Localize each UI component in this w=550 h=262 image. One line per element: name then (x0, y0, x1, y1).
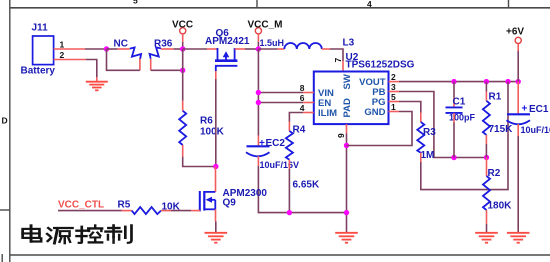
resistor R5 10K (118, 200, 181, 215)
svg-text:10uF/16V: 10uF/16V (521, 125, 550, 135)
wire R36 bottom loop (151, 69, 183, 71)
svg-text:1: 1 (391, 102, 396, 112)
node PAD rail junction (344, 210, 349, 215)
frame zone tick top right (508, 0, 510, 8)
svg-text:C1: C1 (453, 97, 466, 108)
svg-text:VCC: VCC (172, 20, 193, 31)
svg-text:R4: R4 (293, 125, 306, 136)
U2 pin 8 (300, 83, 314, 93)
wire VCC_CTL to R5 (58, 210, 122, 212)
wire L3 to pin7 (330, 49, 343, 61)
svg-text:R6: R6 (200, 116, 213, 127)
node PG pullup junction (505, 79, 510, 84)
resistor NC pin left (118, 48, 130, 50)
U2 pin 9 PAD (336, 124, 347, 138)
wire R6 top (182, 101, 184, 111)
resistor R5 pin right (161, 210, 171, 212)
transistor Q6 pin drain (235, 48, 245, 50)
ground Q9 (205, 233, 228, 243)
wire GND loop (347, 112, 413, 146)
node A junction (104, 46, 109, 51)
svg-text:L3: L3 (343, 38, 355, 49)
svg-text:EC1: EC1 (529, 104, 549, 115)
frame zone tick top (256, 0, 258, 8)
wire pin2 to ground (86, 60, 97, 82)
wire R5 to Q9 gate (171, 210, 191, 212)
wire VOUT rail (399, 81, 518, 83)
capacitor EC2 pin top (257, 136, 259, 146)
resistor R4 pin top (288, 122, 290, 132)
transistor Q6 pin source (207, 48, 218, 50)
resistor R3 1M (417, 122, 436, 161)
wire +6V drop (517, 51, 519, 82)
svg-text:5: 5 (133, 0, 138, 6)
resistor R3 pin top (420, 113, 422, 123)
svg-text:2: 2 (60, 50, 65, 60)
svg-text:3: 3 (391, 82, 396, 92)
svg-text:+: + (259, 138, 265, 149)
wire VCC down to R6 (182, 49, 184, 101)
wire pin1 to node A (85, 48, 107, 50)
node C1 bottom junction (451, 155, 456, 160)
node C1 top junction (451, 79, 456, 84)
resistor R3 pin bottom (420, 153, 422, 162)
svg-text:Q9: Q9 (223, 198, 237, 209)
resistor R2 180K (483, 168, 512, 212)
transistor Q9 pin gate (191, 210, 200, 212)
capacitor EC2 10uF/16V (246, 138, 299, 170)
inductor L3 pin right (322, 48, 330, 50)
wire EC2 to pad ground rail (258, 166, 346, 213)
resistor R4 pin bottom (288, 160, 290, 169)
wire R4 to ground rail (288, 169, 290, 213)
ground R2 (475, 233, 498, 243)
svg-text:180K: 180K (488, 201, 513, 212)
capacitor EC1 10uF/16V (507, 104, 550, 136)
svg-text:SW: SW (342, 74, 353, 89)
resistor R5 pin left (122, 210, 132, 212)
power port +6V (506, 27, 524, 52)
svg-text:NC: NC (114, 39, 128, 50)
transistor Q9 APM2300 (200, 188, 268, 211)
svg-text:Battery: Battery (21, 66, 56, 77)
wire ILIM to R4 (289, 113, 303, 122)
power port VCC_M (248, 20, 283, 43)
wire Q9 source to ground (215, 221, 217, 232)
wire VCC drop (182, 42, 184, 49)
node VCC junction (180, 46, 185, 51)
node EC1 top junction (516, 79, 521, 84)
zone label 4 (367, 0, 372, 9)
frame border top (10, 7, 550, 9)
capacitor EC1 pin top (517, 82, 519, 114)
wire Q6 gate down (215, 79, 217, 167)
power port VCC (172, 20, 193, 43)
resistor R1 pin bottom (485, 135, 487, 158)
svg-text:6.65K: 6.65K (293, 180, 320, 191)
capacitor EC1 pin bottom (517, 124, 519, 233)
node R1 R2 junction (484, 155, 489, 160)
U2 pin 2 (389, 72, 400, 82)
capacitor C1 100pF (446, 97, 476, 123)
frame border left (9, 0, 11, 262)
resistor R36 (148, 39, 173, 62)
transistor Q6 pin gate (215, 71, 217, 79)
svg-text:+6V: +6V (506, 27, 524, 38)
wire VCC_M drop (257, 42, 259, 49)
wire pin8 branch (258, 92, 303, 94)
svg-text:7: 7 (333, 58, 343, 63)
node EN junction (256, 100, 261, 105)
svg-text:8: 8 (300, 83, 305, 93)
wire R3 to VOUT pullup (421, 82, 508, 190)
sheet corner stub (1, 254, 3, 262)
wire VIN EN column (257, 49, 259, 136)
svg-text:100pF: 100pF (449, 113, 476, 123)
ground EC1 (507, 233, 530, 243)
svg-text:10uF/16V: 10uF/16V (260, 160, 300, 170)
capacitor C1 pin bottom (453, 113, 455, 158)
ground battery (86, 82, 108, 91)
svg-text:TPS61252DSG: TPS61252DSG (346, 60, 415, 71)
svg-text:2: 2 (391, 72, 396, 82)
svg-text:9: 9 (336, 133, 346, 138)
connector J11 (21, 23, 56, 77)
resistor R36 pin bottom (150, 59, 152, 71)
svg-text:5: 5 (391, 92, 396, 102)
net label VCC_CTL (58, 200, 104, 211)
frame border bottom (10, 254, 550, 256)
svg-text:D: D (2, 116, 8, 126)
resistor R6 pin bottom (182, 145, 184, 157)
wire rail to L3 (258, 48, 277, 50)
resistor R4 6.65K (286, 125, 320, 191)
U2 pin 3 (389, 82, 400, 92)
op-amp U2 TPS61252DSG body (314, 52, 415, 124)
resistor R1 715K (483, 92, 513, 136)
J11 pin 1 (54, 40, 85, 50)
node PAD GND junction (344, 143, 349, 148)
U2 pin 7 (333, 58, 343, 72)
resistor R36 pin right (161, 48, 174, 50)
node gate junction (213, 164, 218, 169)
resistor R2 pin top (486, 158, 488, 177)
U2 pin 4 (300, 103, 314, 113)
wire NC bottom loop (107, 49, 140, 70)
svg-text:APM2421: APM2421 (205, 36, 250, 47)
svg-text:6: 6 (300, 93, 305, 103)
title text 电源控制 (23, 225, 132, 243)
frame row tick left (0, 209, 10, 211)
svg-text:VCC_CTL: VCC_CTL (58, 200, 104, 211)
svg-text:GND: GND (364, 107, 385, 118)
transistor Q9 pin source (215, 209, 217, 221)
svg-text:R5: R5 (118, 200, 131, 211)
svg-text:R1: R1 (489, 92, 502, 103)
wire R36 to VCC node (174, 48, 183, 50)
node VIN junction (256, 90, 261, 95)
transistor Q9 pin drain (215, 167, 217, 192)
wire R6 to gate node (183, 157, 216, 167)
svg-text:1M: 1M (421, 150, 435, 161)
wire rail to Q6 (183, 48, 207, 50)
inductor L3 pin left (278, 48, 285, 50)
resistor NC pin bottom (139, 59, 141, 71)
zone label 5 (133, 0, 138, 6)
capacitor EC2 pin bottom (257, 156, 259, 166)
svg-text:R3: R3 (423, 127, 436, 138)
U2 pin 6 (300, 93, 314, 103)
svg-text:1: 1 (60, 40, 65, 50)
U2 pin 1 (389, 102, 400, 112)
inductor L3 1.5uH (260, 38, 355, 50)
wire node A rail (107, 48, 118, 50)
node R1 top junction (484, 79, 489, 84)
J11 pin 2 (54, 50, 86, 60)
svg-text:EC2: EC2 (266, 138, 286, 149)
capacitor C1 pin top (453, 82, 455, 107)
resistor R1 pin top (485, 82, 487, 101)
wire PG to R3 (399, 102, 421, 113)
svg-text:715K: 715K (489, 124, 514, 135)
zone label D (2, 116, 8, 126)
svg-text:R2: R2 (488, 168, 501, 179)
svg-text:1.5uH: 1.5uH (260, 38, 285, 48)
wire PAD to ground (346, 134, 348, 233)
wire pin6 branch (258, 102, 303, 104)
svg-text:4: 4 (367, 0, 372, 9)
resistor NC (114, 39, 144, 62)
svg-text:VCC_M: VCC_M (248, 20, 283, 31)
U2 pin 5 (389, 92, 400, 102)
resistor R6 100K (179, 111, 224, 145)
svg-text:ILIM: ILIM (318, 108, 337, 119)
svg-text:+: + (522, 104, 528, 115)
wire Q6 to VCC_M node (245, 48, 258, 50)
svg-text:PAD: PAD (342, 98, 353, 117)
wire PB elbow (399, 92, 487, 158)
resistor R2 pin bottom (486, 210, 488, 233)
node loop junction (180, 68, 185, 73)
svg-text:J11: J11 (32, 23, 49, 34)
svg-text:4: 4 (300, 103, 305, 113)
transistor Q6 APM2421 (205, 28, 250, 71)
svg-text:100K: 100K (200, 127, 225, 138)
svg-text:R36: R36 (154, 39, 173, 50)
node VCC_M junction (256, 46, 261, 51)
ground PAD (335, 233, 358, 243)
node R4 junction (287, 210, 292, 215)
